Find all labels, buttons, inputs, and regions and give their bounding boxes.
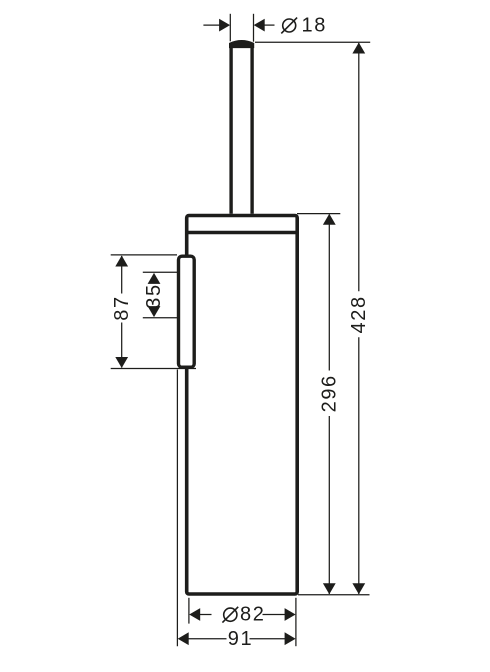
- svg-text:91: 91: [228, 628, 253, 650]
- dim O18 arrows and leader: [203, 19, 274, 32]
- svg-text:35: 35: [143, 283, 165, 308]
- svg-text:82: 82: [240, 604, 265, 626]
- extension line 87 bottom: [111, 368, 196, 370]
- dim O82: [189, 604, 295, 626]
- dim O82 extension lines: [188, 598, 190, 624]
- dim 296: [318, 214, 340, 594]
- wall bracket: [179, 256, 195, 367]
- dim 91 left extension line: [176, 370, 178, 647]
- dim 35: [143, 273, 165, 317]
- dim 428: [348, 43, 370, 595]
- brush handle rod: [229, 40, 253, 213]
- svg-text:87: 87: [111, 295, 133, 320]
- dim O18 extension lines: [229, 14, 231, 42]
- dim 87: [111, 256, 133, 369]
- svg-text:18: 18: [302, 14, 327, 36]
- extension line body bottom right: [298, 594, 370, 596]
- extension line 35 lower: [143, 317, 177, 319]
- lid separator line: [187, 231, 296, 234]
- extension line rod top right: [255, 41, 370, 43]
- extension line 87 top: [111, 254, 177, 256]
- dim O18 label: [281, 14, 327, 36]
- dim 91: [178, 628, 296, 650]
- extension line lid top right: [297, 213, 340, 215]
- extension line 35 upper: [143, 271, 177, 273]
- container body outline: [187, 216, 298, 595]
- svg-text:428: 428: [348, 295, 370, 333]
- svg-text:296: 296: [318, 374, 340, 412]
